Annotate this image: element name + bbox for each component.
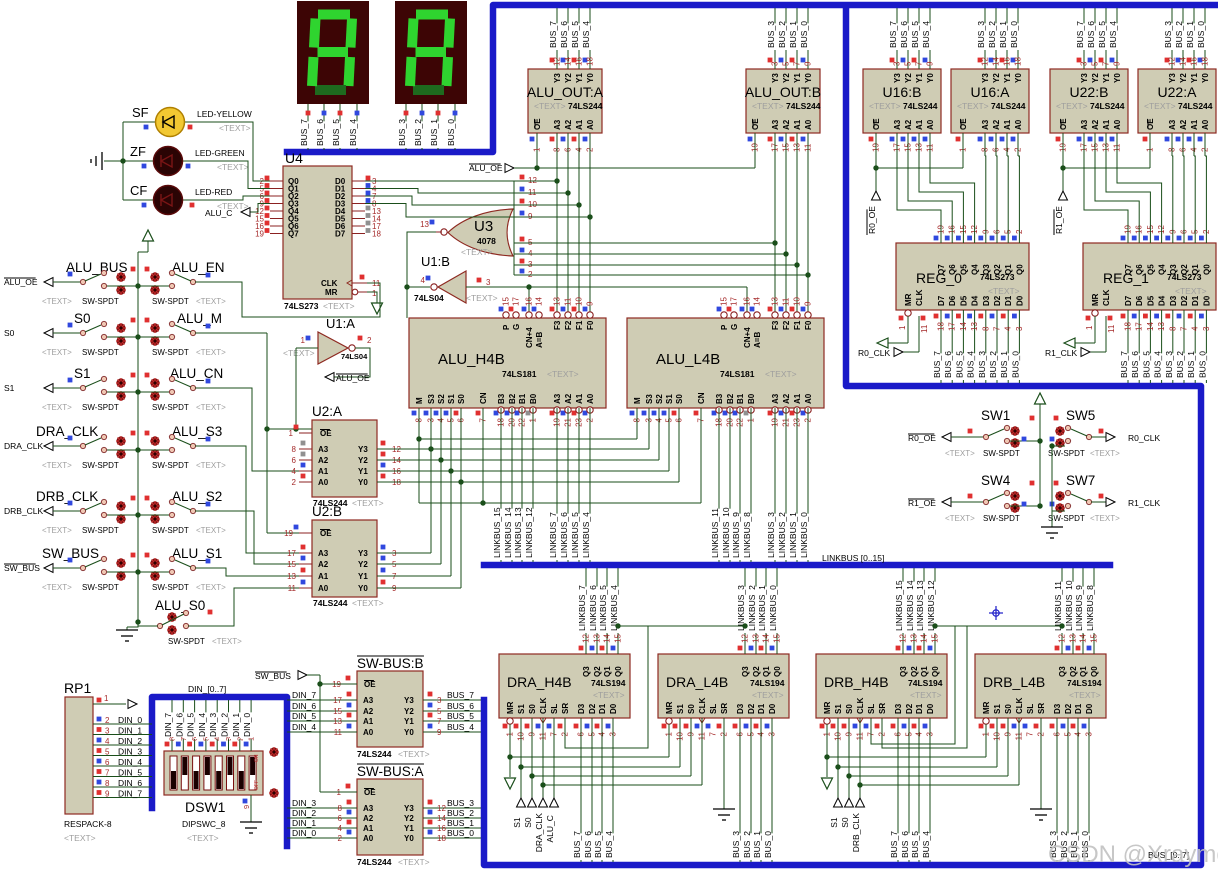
svg-text:BUS_3: BUS_3 <box>766 21 776 48</box>
svg-text:D6: D6 <box>1135 295 1144 306</box>
svg-text:F3: F3 <box>771 320 780 330</box>
svg-text:74LS244: 74LS244 <box>568 101 603 111</box>
svg-text:D3: D3 <box>577 703 586 714</box>
svg-text:OE: OE <box>320 529 332 538</box>
svg-text:17: 17 <box>287 549 296 558</box>
svg-text:B0: B0 <box>747 393 756 404</box>
svg-text:CN: CN <box>479 392 488 404</box>
svg-text:14: 14 <box>992 57 1001 66</box>
svg-text:BUS_0: BUS_0 <box>1010 351 1020 378</box>
svg-text:<TEXT>: <TEXT> <box>196 348 226 357</box>
svg-text:Q3: Q3 <box>1058 666 1067 677</box>
svg-text:LINKBUS_5: LINKBUS_5 <box>570 512 580 558</box>
svg-text:18: 18 <box>437 834 446 843</box>
svg-text:SR: SR <box>720 703 729 714</box>
svg-text:Y1: Y1 <box>575 73 584 83</box>
svg-text:DRA_CLK: DRA_CLK <box>4 441 44 451</box>
svg-text:ALU_OUT:B: ALU_OUT:B <box>745 84 821 100</box>
svg-text:BUS_0: BUS_0 <box>1197 351 1207 378</box>
svg-text:DRB_CLK: DRB_CLK <box>851 813 861 853</box>
svg-text:BUS_6: BUS_6 <box>583 831 593 858</box>
svg-text:DIN_6: DIN_6 <box>118 778 142 788</box>
svg-text:4: 4 <box>421 276 426 285</box>
svg-text:14: 14 <box>535 297 544 306</box>
svg-text:A1: A1 <box>793 119 802 130</box>
svg-text:SW-SPDT: SW-SPDT <box>1048 449 1085 458</box>
svg-text:Q1: Q1 <box>762 666 771 677</box>
svg-text:A3: A3 <box>893 119 902 130</box>
svg-text:19: 19 <box>284 529 293 538</box>
svg-text:12: 12 <box>582 633 591 642</box>
svg-text:<TEXT>: <TEXT> <box>957 101 989 111</box>
svg-text:Y1: Y1 <box>358 467 368 476</box>
svg-text:Y0: Y0 <box>358 584 368 593</box>
svg-text:D7: D7 <box>335 230 346 239</box>
svg-text:D2: D2 <box>588 703 597 714</box>
svg-text:U22:A: U22:A <box>1158 84 1198 100</box>
svg-text:18: 18 <box>372 230 381 239</box>
svg-text:Y3: Y3 <box>404 696 414 705</box>
svg-text:A3: A3 <box>363 804 374 813</box>
svg-text:15: 15 <box>1090 633 1099 642</box>
svg-text:Y2: Y2 <box>404 707 414 716</box>
svg-text:M: M <box>415 397 424 404</box>
svg-text:<TEXT>: <TEXT> <box>547 369 579 379</box>
svg-text:11: 11 <box>782 297 791 306</box>
svg-text:A=B: A=B <box>535 332 544 348</box>
svg-text:D4: D4 <box>1158 295 1167 306</box>
svg-text:OE: OE <box>751 118 760 130</box>
svg-text:<TEXT>: <TEXT> <box>466 293 498 303</box>
svg-text:A2: A2 <box>318 456 329 465</box>
svg-text:ALU_S1: ALU_S1 <box>172 546 222 561</box>
svg-text:13: 13 <box>420 220 429 229</box>
svg-text:DRA_L4B: DRA_L4B <box>666 674 728 690</box>
svg-text:LINKBUS_4: LINKBUS_4 <box>581 512 591 558</box>
svg-text:DIN_2: DIN_2 <box>118 736 142 746</box>
svg-text:BUS_4: BUS_4 <box>348 119 358 146</box>
svg-text:D0: D0 <box>1015 295 1024 306</box>
svg-text:D7: D7 <box>1124 295 1133 306</box>
svg-text:3: 3 <box>1202 326 1211 331</box>
svg-text:F2: F2 <box>782 320 791 330</box>
svg-text:17: 17 <box>948 322 957 331</box>
svg-text:Q4: Q4 <box>971 264 980 275</box>
svg-text:SW-BUS:B: SW-BUS:B <box>357 656 424 671</box>
svg-text:Y3: Y3 <box>893 73 902 83</box>
svg-text:5: 5 <box>105 748 110 757</box>
svg-text:BUS_0: BUS_0 <box>1196 21 1206 48</box>
svg-text:7: 7 <box>709 731 718 736</box>
svg-text:A1: A1 <box>318 467 329 476</box>
svg-text:19: 19 <box>255 230 264 239</box>
svg-text:13: 13 <box>553 297 562 306</box>
svg-text:16: 16 <box>1003 57 1012 66</box>
svg-text:OE: OE <box>533 118 542 130</box>
svg-text:<TEXT>: <TEXT> <box>196 461 226 470</box>
svg-text:BUS_0: BUS_0 <box>1009 21 1019 48</box>
svg-text:A0: A0 <box>318 584 329 593</box>
svg-text:U3: U3 <box>474 218 493 235</box>
svg-text:U16:B: U16:B <box>883 84 922 100</box>
svg-text:SW5: SW5 <box>1066 408 1095 423</box>
svg-text:<TEXT>: <TEXT> <box>219 123 251 133</box>
svg-text:BUS_0: BUS_0 <box>447 828 474 838</box>
svg-text:BUS_6: BUS_6 <box>315 119 325 146</box>
svg-text:DIN_2: DIN_2 <box>220 713 230 737</box>
svg-text:DRA_CLK: DRA_CLK <box>36 424 98 439</box>
svg-text:5: 5 <box>782 61 791 66</box>
svg-text:A3: A3 <box>1080 119 1089 130</box>
svg-text:Q2: Q2 <box>993 264 1002 275</box>
svg-text:LED-RED: LED-RED <box>195 187 232 197</box>
svg-text:LINKBUS_13: LINKBUS_13 <box>513 507 523 558</box>
svg-text:Y2: Y2 <box>358 456 368 465</box>
svg-text:SR: SR <box>1037 703 1046 714</box>
svg-text:ALU_M: ALU_M <box>177 311 222 326</box>
svg-text:P: P <box>502 324 511 330</box>
svg-text:G: G <box>730 324 739 330</box>
svg-text:D6: D6 <box>948 295 957 306</box>
svg-text:F0: F0 <box>804 320 813 330</box>
svg-text:S3: S3 <box>427 394 436 404</box>
svg-text:15: 15 <box>333 707 342 716</box>
svg-text:Y3: Y3 <box>1080 73 1089 83</box>
svg-text:OE: OE <box>872 118 881 130</box>
svg-text:OE: OE <box>364 788 376 797</box>
svg-text:CF: CF <box>130 183 147 198</box>
svg-text:Y2: Y2 <box>358 560 368 569</box>
svg-text:BUS_6: BUS_6 <box>899 21 909 48</box>
svg-text:A2: A2 <box>564 393 573 404</box>
svg-text:4: 4 <box>338 824 343 833</box>
svg-text:3: 3 <box>1080 61 1089 66</box>
svg-text:DIN_1: DIN_1 <box>118 726 142 736</box>
svg-text:BUS_5: BUS_5 <box>1141 351 1151 378</box>
svg-text:3: 3 <box>771 61 780 66</box>
svg-text:DRB_CLK: DRB_CLK <box>36 489 98 504</box>
svg-text:Y3: Y3 <box>981 73 990 83</box>
svg-text:<TEXT>: <TEXT> <box>187 833 219 843</box>
svg-text:<TEXT>: <TEXT> <box>1175 286 1207 296</box>
svg-text:S1: S1 <box>447 394 456 404</box>
svg-text:BUS_4: BUS_4 <box>921 831 931 858</box>
svg-text:BUS_7: BUS_7 <box>447 690 474 700</box>
svg-text:13: 13 <box>1157 322 1166 331</box>
svg-text:BUS_7: BUS_7 <box>1075 21 1085 48</box>
svg-text:Y0: Y0 <box>358 478 368 487</box>
svg-text:A3: A3 <box>981 119 990 130</box>
svg-text:SL: SL <box>1026 704 1035 714</box>
svg-text:SW-SPDT: SW-SPDT <box>152 403 189 412</box>
svg-text:11: 11 <box>1107 324 1116 333</box>
svg-text:BUS_7: BUS_7 <box>548 21 558 48</box>
svg-text:BUS_1: BUS_1 <box>447 818 474 828</box>
svg-text:D5: D5 <box>959 295 968 306</box>
svg-text:SW-BUS:A: SW-BUS:A <box>357 764 424 779</box>
svg-text:Y0: Y0 <box>1113 73 1122 83</box>
svg-text:D2: D2 <box>1180 295 1189 306</box>
svg-text:S0: S0 <box>4 328 15 338</box>
svg-text:Y1: Y1 <box>404 824 414 833</box>
svg-text:Q7: Q7 <box>1124 264 1133 275</box>
svg-text:U22:B: U22:B <box>1070 84 1109 100</box>
svg-text:M: M <box>633 397 642 404</box>
svg-text:A1: A1 <box>575 119 584 130</box>
svg-text:F2: F2 <box>564 320 573 330</box>
svg-text:D3: D3 <box>982 295 991 306</box>
svg-text:Y3: Y3 <box>358 445 368 454</box>
svg-text:MR: MR <box>904 293 913 306</box>
svg-text:14: 14 <box>603 633 612 642</box>
svg-text:Y2: Y2 <box>904 73 913 83</box>
svg-text:SW-SPDT: SW-SPDT <box>82 348 119 357</box>
svg-text:<TEXT>: <TEXT> <box>1090 449 1120 458</box>
svg-text:BUS_5: BUS_5 <box>954 351 964 378</box>
svg-text:SW7: SW7 <box>1066 473 1095 488</box>
svg-text:1: 1 <box>301 336 306 345</box>
svg-text:S1: S1 <box>993 704 1002 714</box>
svg-text:BUS_6: BUS_6 <box>559 21 569 48</box>
svg-text:BUS_0: BUS_0 <box>763 831 773 858</box>
svg-text:DIN_4: DIN_4 <box>118 757 142 767</box>
svg-text:Y1: Y1 <box>358 572 368 581</box>
svg-text:17: 17 <box>512 297 521 306</box>
svg-text:74LS194: 74LS194 <box>1067 678 1102 688</box>
svg-text:<TEXT>: <TEXT> <box>752 690 784 700</box>
svg-text:CLK: CLK <box>1102 289 1111 306</box>
svg-text:OE: OE <box>1146 118 1155 130</box>
svg-text:Y1: Y1 <box>1190 73 1199 83</box>
svg-text:OE: OE <box>959 118 968 130</box>
svg-text:8: 8 <box>105 779 110 788</box>
svg-text:A1: A1 <box>363 717 374 726</box>
svg-text:A1: A1 <box>1102 119 1111 130</box>
svg-text:Y2: Y2 <box>1179 73 1188 83</box>
svg-text:LINKBUS_0: LINKBUS_0 <box>799 512 809 558</box>
svg-text:Y1: Y1 <box>1003 73 1012 83</box>
svg-text:A0: A0 <box>363 834 374 843</box>
svg-text:D1: D1 <box>757 703 766 714</box>
svg-text:Y2: Y2 <box>404 814 414 823</box>
svg-text:3: 3 <box>486 278 491 287</box>
svg-text:Q3: Q3 <box>582 666 591 677</box>
svg-text:13: 13 <box>910 633 919 642</box>
svg-text:A2: A2 <box>904 119 913 130</box>
svg-text:D7: D7 <box>937 295 946 306</box>
svg-text:4: 4 <box>292 467 297 476</box>
svg-text:SW-SPDT: SW-SPDT <box>82 297 119 306</box>
svg-text:S0: S0 <box>74 311 91 326</box>
svg-text:LINKBUS_7: LINKBUS_7 <box>577 585 587 631</box>
svg-text:R1_CLK: R1_CLK <box>1128 498 1160 508</box>
svg-text:4078: 4078 <box>477 236 496 246</box>
svg-text:BUS_2: BUS_2 <box>1175 351 1185 378</box>
svg-text:U2:B: U2:B <box>312 504 342 519</box>
svg-text:SF: SF <box>132 105 149 120</box>
svg-text:7: 7 <box>1102 61 1111 66</box>
svg-text:A3: A3 <box>771 119 780 130</box>
svg-text:CN: CN <box>697 392 706 404</box>
svg-text:OFF: OFF <box>254 780 260 790</box>
svg-text:Q0: Q0 <box>614 666 623 677</box>
svg-text:BUS_3: BUS_3 <box>976 21 986 48</box>
svg-text:CLK: CLK <box>539 697 548 714</box>
svg-text:F0: F0 <box>586 320 595 330</box>
svg-text:<TEXT>: <TEXT> <box>988 286 1020 296</box>
svg-text:DRA_H4B: DRA_H4B <box>507 674 572 690</box>
svg-text:SW-SPDT: SW-SPDT <box>152 526 189 535</box>
svg-text:A2: A2 <box>992 119 1001 130</box>
svg-text:Y3: Y3 <box>404 804 414 813</box>
svg-text:10: 10 <box>575 297 584 306</box>
svg-text:LINKBUS_10: LINKBUS_10 <box>1064 580 1074 631</box>
svg-text:ALU_CN: ALU_CN <box>170 366 223 381</box>
svg-text:<TEXT>: <TEXT> <box>196 403 226 412</box>
svg-text:A3: A3 <box>318 549 329 558</box>
svg-text:74LS244: 74LS244 <box>357 749 392 759</box>
svg-text:Y0: Y0 <box>1201 73 1210 83</box>
svg-text:Q3: Q3 <box>982 264 991 275</box>
svg-text:1: 1 <box>247 737 256 741</box>
svg-text:Y1: Y1 <box>915 73 924 83</box>
svg-text:Y2: Y2 <box>992 73 1001 83</box>
svg-text:CLK: CLK <box>698 697 707 714</box>
svg-text:D0: D0 <box>609 703 618 714</box>
svg-text:<TEXT>: <TEXT> <box>64 833 96 843</box>
svg-text:Q2: Q2 <box>910 666 919 677</box>
svg-text:Q0: Q0 <box>931 666 940 677</box>
svg-text:BUS_7: BUS_7 <box>889 831 899 858</box>
svg-text:ALU_L4B: ALU_L4B <box>656 351 720 368</box>
svg-text:74LS244: 74LS244 <box>313 598 348 608</box>
svg-text:<TEXT>: <TEXT> <box>945 449 975 458</box>
svg-text:74LS04: 74LS04 <box>341 352 368 361</box>
svg-text:18: 18 <box>1124 322 1133 331</box>
svg-text:74LS244: 74LS244 <box>1090 101 1125 111</box>
svg-text:BUS_6: BUS_6 <box>447 701 474 711</box>
svg-text:DIN_5: DIN_5 <box>292 711 316 721</box>
svg-text:<TEXT>: <TEXT> <box>752 101 784 111</box>
svg-text:15: 15 <box>614 633 623 642</box>
svg-text:BUS_1: BUS_1 <box>752 831 762 858</box>
svg-text:MR: MR <box>325 288 338 297</box>
svg-text:15: 15 <box>720 297 729 306</box>
svg-text:A1: A1 <box>318 572 329 581</box>
svg-text:6: 6 <box>105 758 110 767</box>
svg-text:BUS_3: BUS_3 <box>731 831 741 858</box>
svg-text:LINKBUS_15: LINKBUS_15 <box>894 580 904 631</box>
svg-text:9: 9 <box>1113 61 1122 66</box>
svg-text:Y1: Y1 <box>793 73 802 83</box>
svg-text:MR: MR <box>982 701 991 714</box>
svg-text:Q0: Q0 <box>773 666 782 677</box>
svg-text:<TEXT>: <TEXT> <box>196 526 226 535</box>
svg-text:BUS_3: BUS_3 <box>1163 21 1173 48</box>
svg-text:<TEXT>: <TEXT> <box>945 514 975 523</box>
svg-text:13: 13 <box>771 297 780 306</box>
svg-text:S0: S0 <box>528 704 537 714</box>
svg-text:D1: D1 <box>1074 703 1083 714</box>
svg-text:ALU_C: ALU_C <box>205 208 232 218</box>
svg-text:LINKBUS_2: LINKBUS_2 <box>747 585 757 631</box>
svg-text:Q4: Q4 <box>1158 264 1167 275</box>
svg-text:3: 3 <box>893 61 902 66</box>
svg-text:<TEXT>: <TEXT> <box>42 526 72 535</box>
svg-text:BUS_3: BUS_3 <box>1164 351 1174 378</box>
svg-text:4: 4 <box>105 737 110 746</box>
svg-text:A2: A2 <box>782 119 791 130</box>
svg-text:18: 18 <box>1014 57 1023 66</box>
svg-text:1: 1 <box>533 147 542 152</box>
svg-text:BUS_7: BUS_7 <box>299 119 309 146</box>
svg-text:74LS181: 74LS181 <box>502 369 537 379</box>
svg-text:2: 2 <box>105 716 110 725</box>
svg-text:SW1: SW1 <box>981 408 1010 423</box>
svg-text:Y3: Y3 <box>1168 73 1177 83</box>
svg-text:LINKBUS_6: LINKBUS_6 <box>588 585 598 631</box>
svg-text:14: 14 <box>1079 633 1088 642</box>
svg-text:<TEXT>: <TEXT> <box>398 857 430 867</box>
svg-text:B1: B1 <box>518 393 527 404</box>
svg-text:Y1: Y1 <box>404 717 414 726</box>
svg-text:<TEXT>: <TEXT> <box>910 690 942 700</box>
svg-text:BUS_1: BUS_1 <box>998 21 1008 48</box>
svg-text:R1_OE: R1_OE <box>1054 206 1064 234</box>
svg-text:<TEXT>: <TEXT> <box>352 598 384 608</box>
svg-text:LED-YELLOW: LED-YELLOW <box>197 109 252 119</box>
svg-text:<TEXT>: <TEXT> <box>593 690 625 700</box>
svg-text:SW-SPDT: SW-SPDT <box>168 637 205 646</box>
svg-text:DRA_CLK: DRA_CLK <box>534 813 544 853</box>
svg-text:DIN_6: DIN_6 <box>292 701 316 711</box>
svg-text:13: 13 <box>752 633 761 642</box>
svg-text:B0: B0 <box>529 393 538 404</box>
svg-text:SW-SPDT: SW-SPDT <box>152 348 189 357</box>
svg-text:D3: D3 <box>894 703 903 714</box>
svg-text:BUS_3: BUS_3 <box>447 798 474 808</box>
svg-text:DIN_0: DIN_0 <box>292 828 316 838</box>
svg-text:BUS_1: BUS_1 <box>429 119 439 146</box>
svg-text:LINKBUS_14: LINKBUS_14 <box>905 580 915 631</box>
svg-text:Q3: Q3 <box>1169 264 1178 275</box>
svg-text:13: 13 <box>970 322 979 331</box>
svg-text:B2: B2 <box>726 393 735 404</box>
svg-text:13: 13 <box>593 633 602 642</box>
svg-text:MR: MR <box>665 701 674 714</box>
svg-text:S3: S3 <box>645 394 654 404</box>
svg-text:LINKBUS_9: LINKBUS_9 <box>731 512 741 558</box>
svg-text:LINKBUS_9: LINKBUS_9 <box>1074 585 1084 631</box>
svg-text:Q0: Q0 <box>1090 666 1099 677</box>
svg-text:15: 15 <box>287 560 296 569</box>
svg-text:3: 3 <box>437 696 442 705</box>
svg-text:Q6: Q6 <box>1135 264 1144 275</box>
svg-text:13: 13 <box>287 572 296 581</box>
svg-text:R0_CLK: R0_CLK <box>858 348 890 358</box>
svg-text:SL: SL <box>867 704 876 714</box>
svg-text:LINKBUS_3: LINKBUS_3 <box>766 512 776 558</box>
svg-text:BUS_4: BUS_4 <box>1153 351 1163 378</box>
svg-text:RP1: RP1 <box>64 680 91 696</box>
svg-text:12: 12 <box>553 57 562 66</box>
svg-text:DIPSWC_8: DIPSWC_8 <box>182 819 226 829</box>
svg-text:Q1: Q1 <box>1004 264 1013 275</box>
svg-text:2: 2 <box>292 478 297 487</box>
svg-text:13: 13 <box>1069 633 1078 642</box>
svg-text:B3: B3 <box>715 393 724 404</box>
svg-text:DIN_7: DIN_7 <box>118 789 142 799</box>
